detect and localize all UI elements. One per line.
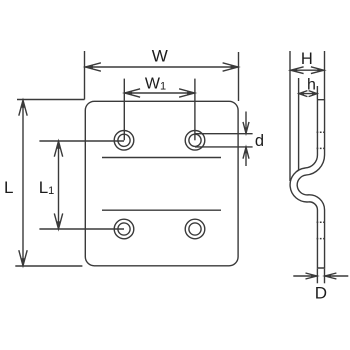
svg-text:W: W xyxy=(152,46,168,65)
svg-text:D: D xyxy=(315,284,327,303)
svg-text:L: L xyxy=(4,178,13,197)
svg-text:d: d xyxy=(255,132,264,150)
svg-text:H: H xyxy=(301,50,313,68)
svg-text:h: h xyxy=(307,77,316,94)
